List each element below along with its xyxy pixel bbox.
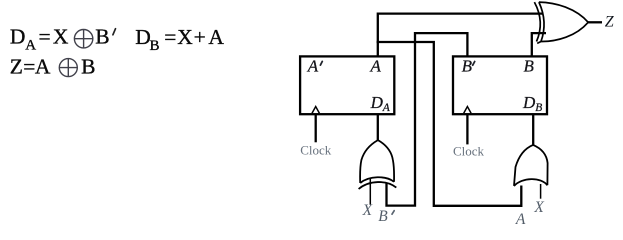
svg-text:B: B — [378, 208, 388, 225]
svg-text:A: A — [307, 57, 319, 76]
svg-text:B: B — [81, 55, 95, 79]
svg-text:B: B — [462, 56, 473, 75]
svg-text:A: A — [35, 55, 51, 79]
svg-text:A: A — [208, 25, 224, 49]
svg-text:X: X — [177, 25, 193, 49]
svg-text:Z: Z — [605, 14, 615, 31]
svg-text:+: + — [194, 25, 206, 49]
svg-text:=: = — [23, 55, 35, 79]
svg-text:D: D — [135, 25, 151, 49]
svg-text:X: X — [53, 25, 69, 49]
svg-text:X: X — [362, 202, 373, 219]
svg-text:A: A — [515, 211, 526, 226]
svg-text:D: D — [10, 25, 26, 49]
svg-text:X: X — [533, 199, 544, 216]
svg-text:B: B — [535, 102, 542, 114]
svg-text:=: = — [164, 25, 176, 49]
svg-text:D: D — [522, 93, 536, 112]
svg-text:A: A — [370, 56, 382, 75]
svg-text:A: A — [25, 37, 36, 53]
svg-text:Clock: Clock — [300, 142, 332, 157]
svg-text:Clock: Clock — [453, 143, 485, 158]
svg-text:B: B — [524, 56, 535, 75]
svg-text:=: = — [39, 25, 51, 49]
svg-text:Z: Z — [10, 55, 23, 79]
svg-text:D: D — [370, 93, 384, 112]
svg-text:A: A — [382, 102, 391, 114]
svg-text:B: B — [150, 38, 160, 54]
svg-text:B: B — [95, 25, 109, 49]
